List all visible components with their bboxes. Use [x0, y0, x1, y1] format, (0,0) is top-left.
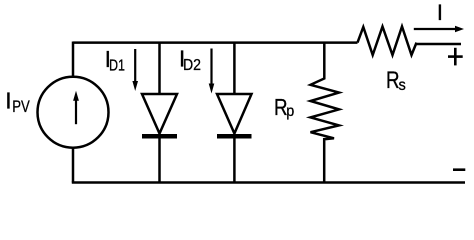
svg-text:I: I	[5, 88, 11, 114]
svg-text:D1: D1	[109, 57, 125, 74]
svg-text:s: s	[399, 77, 406, 94]
svg-text:p: p	[286, 103, 294, 120]
svg-text:D2: D2	[183, 57, 201, 74]
svg-text:I: I	[437, 0, 443, 25]
svg-text:PV: PV	[12, 97, 30, 116]
